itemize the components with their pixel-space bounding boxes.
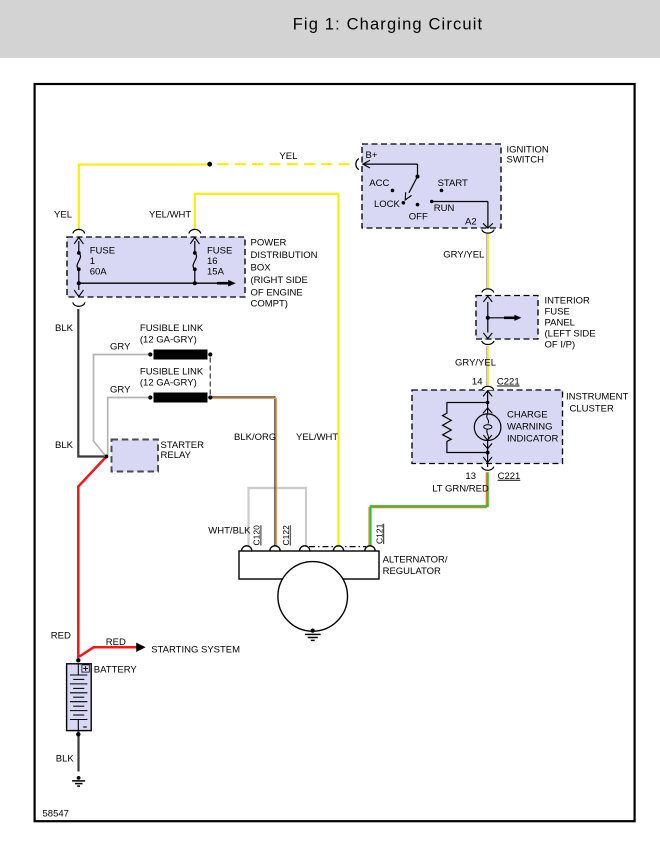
- label YEL/WHT lower: [296, 432, 338, 443]
- junction dot at starter relay: [104, 455, 108, 459]
- connector fourth arc (YEL/WHT): [333, 546, 343, 551]
- label FUSE 16 15A: [207, 246, 232, 278]
- junction dot at resistor top: [486, 401, 490, 405]
- label C121 rotated: [374, 523, 384, 544]
- svg-text:16: 16: [207, 256, 218, 267]
- instrument cluster internals: feed line and arrows: [483, 391, 492, 420]
- wire RED branch to starting system: [80, 643, 146, 657]
- svg-text:BLK: BLK: [55, 323, 74, 334]
- label YEL left: [54, 210, 72, 221]
- label BLK bottom: [56, 754, 75, 765]
- label STARTING SYSTEM: [151, 645, 240, 656]
- svg-text:BATTERY: BATTERY: [94, 665, 138, 676]
- svg-text:BOX: BOX: [251, 263, 272, 274]
- svg-text:STARTING SYSTEM: STARTING SYSTEM: [151, 645, 240, 656]
- svg-text:A2: A2: [465, 217, 477, 228]
- svg-text:(12 GA-GRY): (12 GA-GRY): [140, 377, 197, 388]
- cluster lower arrows and junction: [483, 435, 491, 462]
- label RED branch: [106, 637, 126, 648]
- wire GRY from fusible link 2 to junction: [108, 398, 152, 456]
- fusible link FL2: [148, 393, 212, 403]
- fusible link FL1: [148, 350, 212, 360]
- svg-text:FUSE: FUSE: [545, 306, 570, 317]
- svg-text:GRY/YEL: GRY/YEL: [443, 250, 484, 261]
- svg-text:FUSE: FUSE: [90, 246, 115, 257]
- label B+: [366, 150, 378, 161]
- interior fuse panel box: [476, 296, 538, 340]
- svg-text:15A: 15A: [207, 267, 225, 278]
- svg-text:ACC: ACC: [369, 178, 389, 189]
- svg-text:REGULATOR: REGULATOR: [383, 566, 441, 577]
- svg-text:BLK: BLK: [55, 440, 74, 451]
- svg-text:1: 1: [90, 256, 95, 267]
- connector C120 arc: [242, 546, 252, 551]
- connector C221 pin 14 cup: [482, 386, 494, 390]
- label GRY 2: [110, 385, 131, 396]
- wire GRY/YEL ignition A2 to interior fuse panel (gray strand): [487, 234, 489, 289]
- svg-text:C120: C120: [252, 525, 262, 546]
- svg-text:C122: C122: [281, 525, 291, 546]
- svg-text:GRY/YEL: GRY/YEL: [455, 358, 496, 369]
- label RED left: [51, 631, 71, 642]
- ground at battery: [72, 776, 85, 786]
- alternator/regulator body: [239, 551, 379, 631]
- fuse F1 60A: [73, 229, 85, 296]
- label POWER DISTRIBUTION BOX: [251, 238, 318, 310]
- battery: [67, 658, 92, 736]
- label ACC: [369, 178, 389, 189]
- svg-text:FUSE: FUSE: [207, 246, 232, 257]
- power distribution box: [67, 237, 245, 297]
- wire GRY from fusible link 1 to junction: [94, 355, 151, 457]
- label 13 C221: [465, 471, 520, 482]
- svg-text:CHARGE: CHARGE: [507, 410, 548, 421]
- connector arc at ignition B+ entry: [356, 159, 359, 170]
- wire LT GRN/RED from C221-13 to alternator C121 (red strand): [369, 472, 488, 548]
- wire YEL/WHT from fuse16 to alternator: [195, 194, 339, 548]
- wire BLK/ORG from fusible link 2 to alternator C122: [211, 397, 276, 548]
- bus arrow inside power box: [79, 280, 236, 287]
- svg-text:RUN: RUN: [434, 203, 455, 214]
- starter relay box: [112, 440, 159, 472]
- label LOCK: [374, 199, 401, 210]
- svg-text:(RIGHT SIDE: (RIGHT SIDE: [251, 275, 308, 286]
- svg-text:GRY: GRY: [110, 342, 131, 353]
- svg-text:LOCK: LOCK: [374, 199, 401, 210]
- svg-text:YEL: YEL: [279, 151, 297, 162]
- svg-text:FUSIBLE LINK: FUSIBLE LINK: [140, 366, 204, 377]
- label OFF: [409, 212, 428, 223]
- label YEL on dashed wire: [279, 151, 297, 162]
- splice dot on YEL wire: [207, 162, 212, 167]
- svg-text:B+: B+: [366, 150, 378, 161]
- ignition switch wiper arrow: [405, 177, 417, 200]
- ignition RUN to A2 line: [432, 202, 493, 229]
- svg-text:YEL/WHT: YEL/WHT: [149, 210, 191, 221]
- wire BLK from power box to starter relay junction: [78, 309, 104, 457]
- svg-text:OF I/P): OF I/P): [545, 339, 576, 350]
- svg-text:ALTERNATOR/: ALTERNATOR/: [383, 555, 448, 566]
- label INTERIOR FUSE PANEL: [545, 295, 596, 350]
- interior fuse panel internals: [482, 289, 522, 345]
- svg-text:POWER: POWER: [251, 238, 287, 249]
- label GRY 1: [110, 342, 131, 353]
- label WHT/BLK: [208, 526, 251, 537]
- fuse F16 15A: [189, 229, 201, 285]
- label GRY/YEL lower: [455, 358, 496, 369]
- label FUSE 1 60A: [90, 246, 115, 278]
- wire YEL vertical+horizontal from fuse1 to splice: [79, 165, 210, 231]
- wire BLK battery to ground: [77, 732, 79, 772]
- svg-text:PANEL: PANEL: [545, 317, 575, 328]
- resistor (cluster shunt): [443, 403, 488, 453]
- svg-text:C221: C221: [498, 471, 521, 482]
- ignition switch internals: B+ feed arrow: [363, 161, 420, 179]
- diagram frame: [35, 84, 635, 821]
- label 14 C221: [472, 377, 520, 388]
- svg-text:DISTRIBUTION: DISTRIBUTION: [251, 250, 318, 261]
- label RUN: [434, 203, 455, 214]
- label GRY/YEL upper: [443, 250, 484, 261]
- label BLK/ORG: [234, 432, 276, 443]
- svg-text:COMPT): COMPT): [251, 299, 288, 310]
- svg-text:RED: RED: [106, 637, 126, 648]
- label A2: [465, 217, 477, 228]
- connector third arc: [300, 546, 310, 551]
- label ALTERNATOR/REGULATOR: [383, 555, 448, 578]
- svg-text:LT GRN/RED: LT GRN/RED: [432, 484, 489, 495]
- svg-text:INDICATOR: INDICATOR: [507, 434, 559, 445]
- label BLK lower: [55, 440, 74, 451]
- label BATTERY: [94, 665, 138, 676]
- svg-text:RED: RED: [51, 631, 71, 642]
- charge warning indicator lamp: [474, 414, 501, 441]
- svg-text:(12 GA-GRY): (12 GA-GRY): [140, 335, 197, 346]
- label CHARGE WARNING INDICATOR: [507, 410, 559, 445]
- svg-text:60A: 60A: [90, 267, 108, 278]
- svg-text:C221: C221: [497, 377, 520, 388]
- ground at alternator: [305, 629, 321, 641]
- label 58547: [43, 809, 69, 820]
- svg-text:OFF: OFF: [409, 212, 428, 223]
- alternator connector dash-dot line: [309, 546, 366, 548]
- svg-text:RELAY: RELAY: [161, 450, 192, 461]
- svg-text:WHT/BLK: WHT/BLK: [208, 526, 251, 537]
- ignition switch box: [362, 144, 501, 228]
- label FUSIBLE LINK 2: [140, 366, 204, 388]
- label IGNITION SWITCH: [507, 145, 549, 166]
- ignition contact dots: [391, 189, 444, 207]
- label BLK upper: [55, 323, 74, 334]
- svg-text:INSTRUMENT: INSTRUMENT: [566, 392, 628, 403]
- svg-text:13: 13: [465, 471, 476, 482]
- svg-text:WARNING: WARNING: [507, 422, 553, 433]
- svg-text:FUSIBLE LINK: FUSIBLE LINK: [140, 323, 204, 334]
- connector C121 arc: [365, 546, 375, 551]
- svg-text:Fig 1: Charging Circuit: Fig 1: Charging Circuit: [293, 16, 484, 34]
- wire YEL dashed to ignition switch B+: [218, 163, 353, 165]
- connector C122 arc: [270, 546, 280, 551]
- svg-text:YEL/WHT: YEL/WHT: [296, 432, 338, 443]
- svg-text:CLUSTER: CLUSTER: [570, 404, 614, 415]
- connector cup A2 below ignition box: [482, 230, 495, 234]
- svg-text:SWITCH: SWITCH: [507, 154, 545, 165]
- svg-text:(LEFT SIDE: (LEFT SIDE: [545, 328, 596, 339]
- label C122 rotated: [281, 525, 291, 546]
- svg-text:INTERIOR: INTERIOR: [545, 295, 591, 306]
- wire RED junction to battery: [78, 458, 105, 659]
- label YEL/WHT top: [149, 210, 191, 221]
- svg-text:GRY: GRY: [110, 385, 131, 396]
- title bar: [0, 0, 660, 58]
- connector cup below power box: [73, 302, 85, 306]
- svg-text:BLK/ORG: BLK/ORG: [234, 432, 276, 443]
- dashed link between fusible links: [209, 358, 211, 396]
- label START: [438, 178, 468, 189]
- label C120 rotated: [252, 525, 262, 546]
- svg-text:YEL: YEL: [54, 210, 72, 221]
- svg-text:58547: 58547: [43, 809, 69, 820]
- svg-text:C121: C121: [374, 523, 384, 544]
- svg-text:OF ENGINE: OF ENGINE: [251, 288, 303, 299]
- instrument cluster box: [412, 390, 563, 464]
- svg-text:14: 14: [472, 377, 483, 388]
- label FUSIBLE LINK 1: [140, 323, 204, 346]
- svg-text:BLK: BLK: [56, 754, 75, 765]
- connector C221 pin 13 cup: [482, 464, 494, 471]
- label LT GRN/RED: [432, 484, 489, 495]
- label STARTER RELAY: [161, 440, 205, 461]
- svg-text:START: START: [438, 178, 468, 189]
- wire GRY/YEL interior fuse panel to C221-14: [487, 346, 489, 386]
- wire WHT/BLK bridge C120 to third pin: [249, 488, 307, 548]
- label INSTRUMENT CLUSTER: [566, 392, 628, 415]
